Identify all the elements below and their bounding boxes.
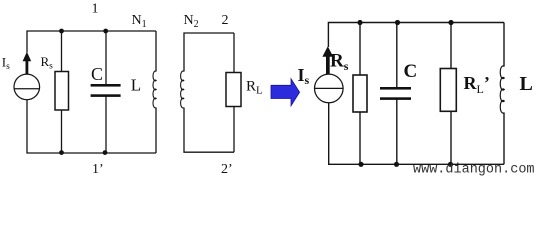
svg-text:Rs: Rs: [41, 54, 54, 72]
wire: right circuit top bus: [328, 23, 504, 48]
svg-text:N1: N1: [132, 13, 147, 30]
capacitor C (right): [380, 87, 411, 100]
wire: C branch upper segment: [105, 31, 107, 85]
svg-text:C: C: [91, 64, 103, 84]
wire: C' branch lower segment: [396, 99, 398, 164]
wire: C' branch upper segment: [396, 23, 398, 88]
wire: RL branch lower segment: [233, 107, 235, 153]
junction dot: Rs' top: [357, 20, 362, 25]
wire: left circuit top bus (node 1): [27, 31, 156, 53]
junction dot: Rs top: [59, 29, 64, 34]
svg-text:1: 1: [92, 2, 99, 17]
transformer secondary coil N2: [181, 71, 184, 108]
equivalence arrow (blue): [271, 79, 300, 106]
wire: RL' branch lower segment: [450, 111, 452, 164]
svg-text:Rs: Rs: [330, 50, 349, 73]
wire: C branch lower segment: [105, 97, 107, 154]
wire: Rs' branch upper segment: [359, 23, 361, 76]
capacitor C (left): [91, 84, 121, 97]
current source I_s (left): circle with bar: [14, 74, 40, 100]
wire: right circuit bottom bus: [329, 103, 504, 165]
current source I_s (right): circle with bar: [315, 74, 344, 103]
svg-text:Is: Is: [298, 65, 310, 87]
junction dot: RL' top: [448, 20, 453, 25]
inductor L (right): [500, 66, 504, 113]
wire: RL' branch upper segment: [450, 23, 452, 69]
resistor R_s (left): [55, 72, 69, 111]
wire: primary branch upper segment: [155, 31, 157, 72]
junction dot: RL' bottom: [448, 162, 453, 167]
resistor R_L': [440, 69, 456, 112]
junction dot: C top: [103, 29, 108, 34]
svg-text:2’: 2’: [221, 162, 233, 177]
svg-text:L: L: [520, 73, 533, 95]
wire: RL branch upper segment: [233, 33, 235, 73]
junction dot: C' top: [395, 20, 400, 25]
inductor L / transformer primary coil N1: [153, 71, 156, 108]
wire: L branch lower segment: [503, 113, 505, 165]
junction dot: C bottom: [103, 150, 108, 155]
junction dot: Rs bottom: [59, 150, 64, 155]
svg-text:N2: N2: [184, 13, 199, 30]
wire: primary branch lower segment: [155, 108, 157, 154]
resistor R_s (right): [353, 75, 367, 112]
svg-text:1’: 1’: [92, 162, 104, 177]
svg-text:Is: Is: [2, 55, 10, 73]
wire: Rs' branch lower segment: [359, 112, 361, 164]
svg-text:RL: RL: [246, 78, 263, 96]
svg-text:L: L: [131, 76, 141, 95]
wire: secondary loop top (node 2): [184, 33, 234, 72]
junction dot: Rs' bottom: [358, 162, 363, 167]
svg-text:RL’: RL’: [464, 73, 490, 96]
wire: left circuit bottom bus (node 1'): [27, 100, 156, 153]
svg-text:www.diangon.com: www.diangon.com: [413, 162, 535, 177]
svg-text:2: 2: [222, 13, 229, 28]
junction dot: C' bottom: [394, 162, 399, 167]
wire: Rs branch lower segment: [61, 110, 63, 153]
wire: L branch upper segment: [503, 23, 505, 67]
wire: Rs branch upper segment: [61, 31, 63, 72]
resistor R_L: [226, 73, 241, 107]
current source I_s (right): direction arrow: [322, 46, 333, 74]
current source I_s (left): direction arrow: [23, 52, 32, 75]
wire: secondary loop bottom (node 2'): [184, 108, 234, 153]
svg-text:C: C: [404, 61, 418, 82]
